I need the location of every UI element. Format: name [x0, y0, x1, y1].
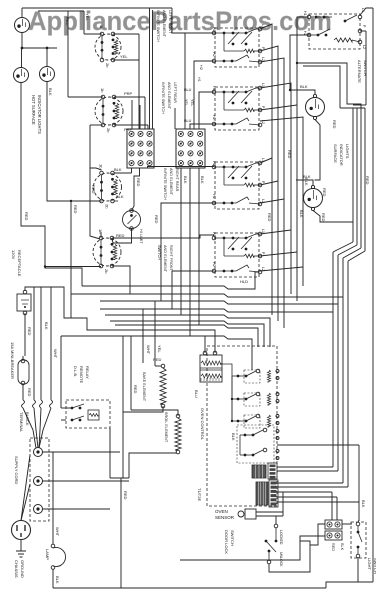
svg-text:INDICATOR LIGHTS: INDICATOR LIGHTS	[37, 95, 42, 134]
svg-text:REMOTE: REMOTE	[79, 366, 84, 383]
svg-text:RELAY: RELAY	[85, 366, 90, 379]
svg-text:RED: RED	[322, 188, 327, 197]
svg-text:T1/T2E: T1/T2E	[197, 488, 202, 501]
svg-text:RED: RED	[136, 178, 141, 187]
svg-text:INFINITE SWITCH: INFINITE SWITCH	[163, 168, 167, 200]
svg-text:RIGHT REAR: RIGHT REAR	[175, 168, 179, 192]
svg-text:BLU: BLU	[184, 119, 192, 123]
svg-text:YEL: YEL	[157, 345, 162, 353]
svg-text:LEFT REAR: LEFT REAR	[173, 82, 177, 103]
svg-text:BLK: BLK	[116, 194, 124, 199]
svg-text:L1: L1	[261, 229, 265, 233]
svg-text:BROIL ELEMENT: BROIL ELEMENT	[164, 412, 168, 443]
svg-text:RED: RED	[123, 491, 128, 500]
svg-text:BLK: BLK	[300, 84, 308, 89]
svg-text:HI LIMIT: HI LIMIT	[139, 229, 143, 244]
svg-text:LIGHT: LIGHT	[367, 558, 372, 570]
svg-text:BLK: BLK	[303, 174, 311, 179]
svg-text:ALTERNATE: ALTERNATE	[357, 60, 362, 83]
svg-text:RED: RED	[331, 543, 335, 551]
svg-text:AND ELEMENT: AND ELEMENT	[169, 168, 173, 196]
svg-text:BLK: BLK	[231, 433, 236, 441]
svg-text:RED: RED	[365, 176, 370, 185]
svg-text:WHT: WHT	[146, 345, 151, 355]
svg-text:OVEN: OVEN	[215, 509, 228, 514]
svg-text:2b: 2b	[106, 128, 111, 133]
svg-text:RED: RED	[154, 215, 159, 224]
svg-text:GROUND: GROUND	[20, 560, 25, 578]
svg-text:H2: H2	[212, 262, 216, 267]
svg-text:BLU: BLU	[194, 390, 199, 398]
svg-text:BLK: BLK	[299, 210, 304, 218]
svg-text:RED: RED	[332, 120, 337, 129]
svg-text:H1: H1	[212, 86, 216, 91]
svg-text:SWITCH: SWITCH	[230, 530, 235, 546]
svg-text:RED: RED	[267, 213, 272, 222]
svg-text:2b: 2b	[105, 63, 110, 68]
svg-text:INFINITE SWITCH: INFINITE SWITCH	[156, 10, 160, 42]
svg-text:WHT: WHT	[53, 349, 58, 359]
svg-text:CHASSIS: CHASSIS	[14, 560, 19, 578]
svg-text:PRP: PRP	[124, 91, 133, 96]
svg-text:BLK: BLK	[340, 543, 344, 551]
svg-text:BLK: BLK	[44, 322, 49, 330]
svg-text:AppliancePartsPros.com: AppliancePartsPros.com	[28, 6, 332, 36]
svg-text:BLK: BLK	[114, 167, 122, 172]
svg-text:RED: RED	[287, 150, 292, 159]
svg-text:AND ELEMENT: AND ELEMENT	[167, 82, 171, 110]
svg-text:YEL: YEL	[190, 99, 194, 106]
svg-text:SUPPLY CORD: SUPPLY CORD	[14, 456, 19, 484]
svg-text:BLK: BLK	[200, 176, 205, 184]
svg-text:BLU: BLU	[184, 88, 192, 92]
svg-text:RED: RED	[65, 17, 70, 26]
svg-text:RED: RED	[27, 327, 32, 336]
svg-text:RECEPTACLE: RECEPTACLE	[17, 250, 22, 277]
svg-text:H2: H2	[212, 194, 216, 199]
svg-text:AND ELEMENT: AND ELEMENT	[163, 245, 167, 273]
svg-text:INDICATOR: INDICATOR	[339, 144, 344, 166]
svg-text:TERMINAL: TERMINAL	[19, 412, 24, 433]
svg-text:YEL: YEL	[120, 54, 128, 59]
svg-text:H1: H1	[212, 161, 216, 166]
svg-text:RED: RED	[116, 233, 125, 238]
svg-text:2b: 2b	[105, 204, 110, 209]
svg-text:SWITCH: SWITCH	[363, 60, 368, 76]
svg-text:RED: RED	[73, 205, 78, 214]
svg-text:BLK: BLK	[55, 576, 60, 584]
svg-text:L1: L1	[261, 83, 265, 87]
svg-text:1b: 1b	[99, 164, 104, 169]
svg-text:YEL: YEL	[184, 99, 188, 106]
svg-text:RED: RED	[153, 357, 162, 362]
svg-text:H2: H2	[212, 115, 216, 120]
svg-text:RED: RED	[27, 388, 32, 397]
svg-text:D.L.B.: D.L.B.	[73, 366, 78, 377]
svg-text:LAMP: LAMP	[45, 549, 50, 560]
svg-text:H2: H2	[199, 65, 203, 70]
svg-text:RIGHT FRONT: RIGHT FRONT	[169, 245, 173, 272]
svg-text:LEFT FRONT: LEFT FRONT	[168, 10, 172, 34]
svg-text:BLK: BLK	[361, 500, 366, 508]
svg-text:H1: H1	[197, 77, 201, 82]
svg-text:DOOR LOCK: DOOR LOCK	[224, 530, 229, 554]
svg-text:SURFACE: SURFACE	[333, 144, 338, 163]
svg-text:RED: RED	[91, 185, 96, 194]
svg-text:INFINITE SWITCH: INFINITE SWITCH	[161, 82, 165, 114]
svg-text:H1: H1	[212, 232, 216, 237]
svg-text:RED: RED	[133, 385, 138, 394]
svg-text:BAKE ELEMENT: BAKE ELEMENT	[142, 372, 146, 402]
svg-text:LIGHTS: LIGHTS	[345, 144, 350, 159]
svg-text:120V: 120V	[11, 250, 16, 260]
svg-text:SWITCH: SWITCH	[157, 245, 161, 260]
svg-text:L2: L2	[261, 57, 265, 61]
svg-text:15A MINI-BREAKER: 15A MINI-BREAKER	[10, 342, 15, 379]
svg-text:1b: 1b	[98, 229, 103, 234]
svg-text:OVEN CONTROL: OVEN CONTROL	[200, 408, 205, 441]
svg-text:H2: H2	[212, 52, 216, 57]
svg-text:BLOCK: BLOCK	[25, 412, 30, 426]
svg-text:1b: 1b	[100, 88, 105, 93]
svg-text:2b: 2b	[104, 269, 109, 274]
svg-text:BLK: BLK	[48, 88, 53, 96]
svg-text:H1: H1	[212, 27, 216, 32]
svg-text:H1: H1	[303, 11, 307, 16]
svg-text:L2: L2	[362, 45, 366, 49]
svg-text:SENSOR: SENSOR	[215, 515, 235, 520]
svg-text:LOCKED: LOCKED	[279, 530, 283, 545]
svg-text:BLK: BLK	[304, 178, 309, 186]
svg-text:RED: RED	[24, 212, 29, 221]
svg-text:RED: RED	[321, 213, 326, 222]
svg-text:AND ELEMENT: AND ELEMENT	[162, 10, 166, 38]
svg-text:HOT SURFACE: HOT SURFACE	[31, 95, 36, 125]
svg-text:WHT: WHT	[55, 527, 60, 537]
svg-text:YEL: YEL	[85, 13, 90, 21]
svg-text:HLD: HLD	[240, 279, 248, 284]
svg-text:BLK: BLK	[183, 176, 188, 184]
svg-text:1b: 1b	[99, 25, 104, 30]
